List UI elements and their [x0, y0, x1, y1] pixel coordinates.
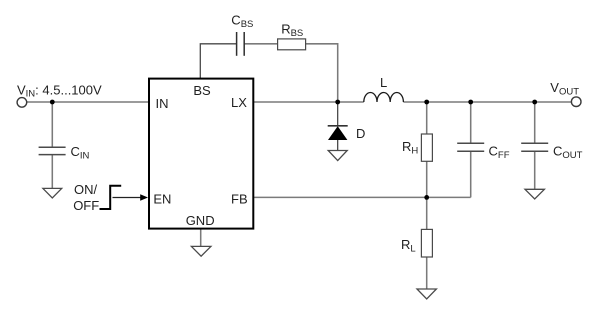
svg-text:COUT: COUT	[553, 143, 583, 161]
svg-text:OFF: OFF	[73, 198, 99, 213]
svg-text:CIN: CIN	[71, 144, 90, 162]
svg-text:RL: RL	[401, 237, 416, 255]
svg-text:CFF: CFF	[489, 143, 510, 161]
svg-text:RBS: RBS	[281, 22, 303, 40]
svg-text:RH: RH	[402, 139, 418, 157]
svg-text:GND: GND	[186, 213, 215, 228]
svg-text:FB: FB	[231, 191, 248, 206]
svg-text:LX: LX	[231, 95, 247, 110]
svg-text:IN: IN	[156, 96, 169, 111]
svg-text:L: L	[380, 75, 387, 90]
svg-text:EN: EN	[153, 191, 171, 206]
svg-text:D: D	[356, 126, 365, 141]
svg-text:VIN: 4.5...100V: VIN: 4.5...100V	[17, 82, 102, 99]
svg-text:BS: BS	[193, 83, 211, 98]
svg-text:ON/: ON/	[74, 182, 98, 197]
svg-text:VOUT: VOUT	[550, 80, 579, 98]
svg-text:CBS: CBS	[231, 12, 253, 30]
